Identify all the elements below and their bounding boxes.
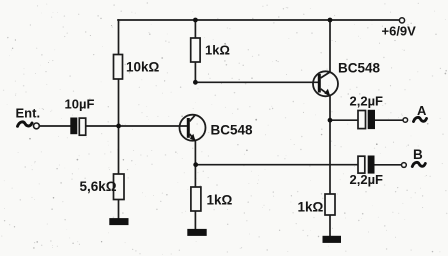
transistor Q2 emitter arrow: [324, 89, 330, 96]
terminal circle B: [402, 163, 407, 168]
wire: left vertical from rail to R1: [118, 20, 120, 55]
resistor R3 5,6k body: [114, 174, 125, 200]
ground G3: [323, 236, 342, 243]
capacitor C2 negative plate: [368, 110, 375, 129]
svg-text:10kΩ: 10kΩ: [126, 60, 160, 75]
svg-text:1kΩ: 1kΩ: [205, 43, 230, 58]
wire: rail to R2: [194, 20, 196, 38]
junction dot node A: [328, 118, 333, 123]
capacitor C2 positive plate: [358, 111, 366, 129]
transistor Q2 base bar: [318, 74, 321, 93]
capacitor C3 positive plate: [358, 156, 365, 173]
wire: Q2 emitter down to node A: [329, 96, 331, 120]
wire: node A down crossing B wire to R5: [329, 120, 331, 194]
terminal circle input: [34, 123, 40, 129]
capacitor C1 negative plate: [70, 118, 77, 135]
svg-text:BC548: BC548: [338, 60, 381, 75]
svg-text:BC548: BC548: [211, 122, 254, 137]
capacitor C1 positive plate: [79, 118, 85, 135]
wire: rail down to Q2 collector: [329, 20, 331, 72]
svg-text:10µF: 10µF: [65, 97, 95, 112]
wire: R1 bottom to input node: [118, 79, 120, 126]
resistor R5 1k body: [325, 194, 335, 215]
wire: C3 to terminal B: [375, 164, 402, 166]
junction dot rail/Q2 collector: [328, 18, 333, 23]
wire: C1 to Q1 base: [86, 125, 187, 127]
wire: node A to C2: [330, 119, 358, 121]
transistor Q1 emitter arrow: [190, 134, 196, 141]
svg-text:1kΩ: 1kΩ: [298, 200, 324, 215]
wire: Q1 collector node to Q2 base: [195, 81, 317, 83]
junction dot R2/Q2 base node: [193, 80, 198, 85]
wire: Q1 emitter down to node B: [194, 141, 196, 165]
wire: R3 bottom to ground: [118, 200, 120, 219]
svg-text:B: B: [413, 147, 423, 162]
terminal circle +V: [399, 18, 404, 23]
input AC tilde: [18, 122, 33, 126]
junction dot input node: [116, 124, 121, 129]
transistor Q2 emitter stroke: [321, 89, 330, 96]
ground G2: [187, 229, 206, 236]
svg-text:2,2µF: 2,2µF: [350, 172, 384, 187]
output A tilde: [414, 117, 427, 121]
transistor Q1 collector stroke: [190, 115, 196, 122]
junction dot node B: [193, 162, 198, 167]
transistor Q1 base bar: [187, 118, 190, 138]
svg-text:1kΩ: 1kΩ: [207, 193, 233, 208]
capacitor C3 negative plate: [368, 156, 375, 174]
ground G1: [109, 218, 128, 225]
transistor Q2 collector stroke: [321, 72, 330, 78]
resistor R4 1k body: [191, 187, 201, 211]
wire: R2 bottom to Q1 collector node: [194, 62, 196, 82]
transistor Q1 circle: [180, 115, 206, 141]
junction dot rail/R2: [193, 18, 198, 23]
resistor R2 1k body: [191, 38, 200, 62]
output B tilde: [412, 162, 425, 166]
terminal circle A: [403, 118, 408, 123]
transistor Q2 circle: [313, 71, 338, 96]
svg-text:Ent.: Ent.: [16, 106, 41, 121]
wire: R4 bottom to ground: [194, 211, 196, 229]
svg-text:A: A: [417, 103, 427, 118]
svg-text:5,6kΩ: 5,6kΩ: [80, 179, 117, 194]
wire: C2 to terminal A: [375, 119, 403, 121]
svg-text:2,2µF: 2,2µF: [350, 94, 384, 109]
wire: +V top supply rail: [118, 19, 399, 21]
wire: R5 bottom to ground: [329, 215, 331, 236]
wire: input terminal to C1: [39, 125, 70, 127]
wire: input node down to R3: [118, 126, 120, 174]
wire: node B to C3: [195, 164, 358, 166]
wire: node B down to R4: [194, 165, 196, 187]
transistor Q1 emitter stroke: [190, 134, 196, 141]
resistor R1 10k body: [114, 55, 123, 80]
svg-text:+6/9V: +6/9V: [382, 24, 417, 39]
